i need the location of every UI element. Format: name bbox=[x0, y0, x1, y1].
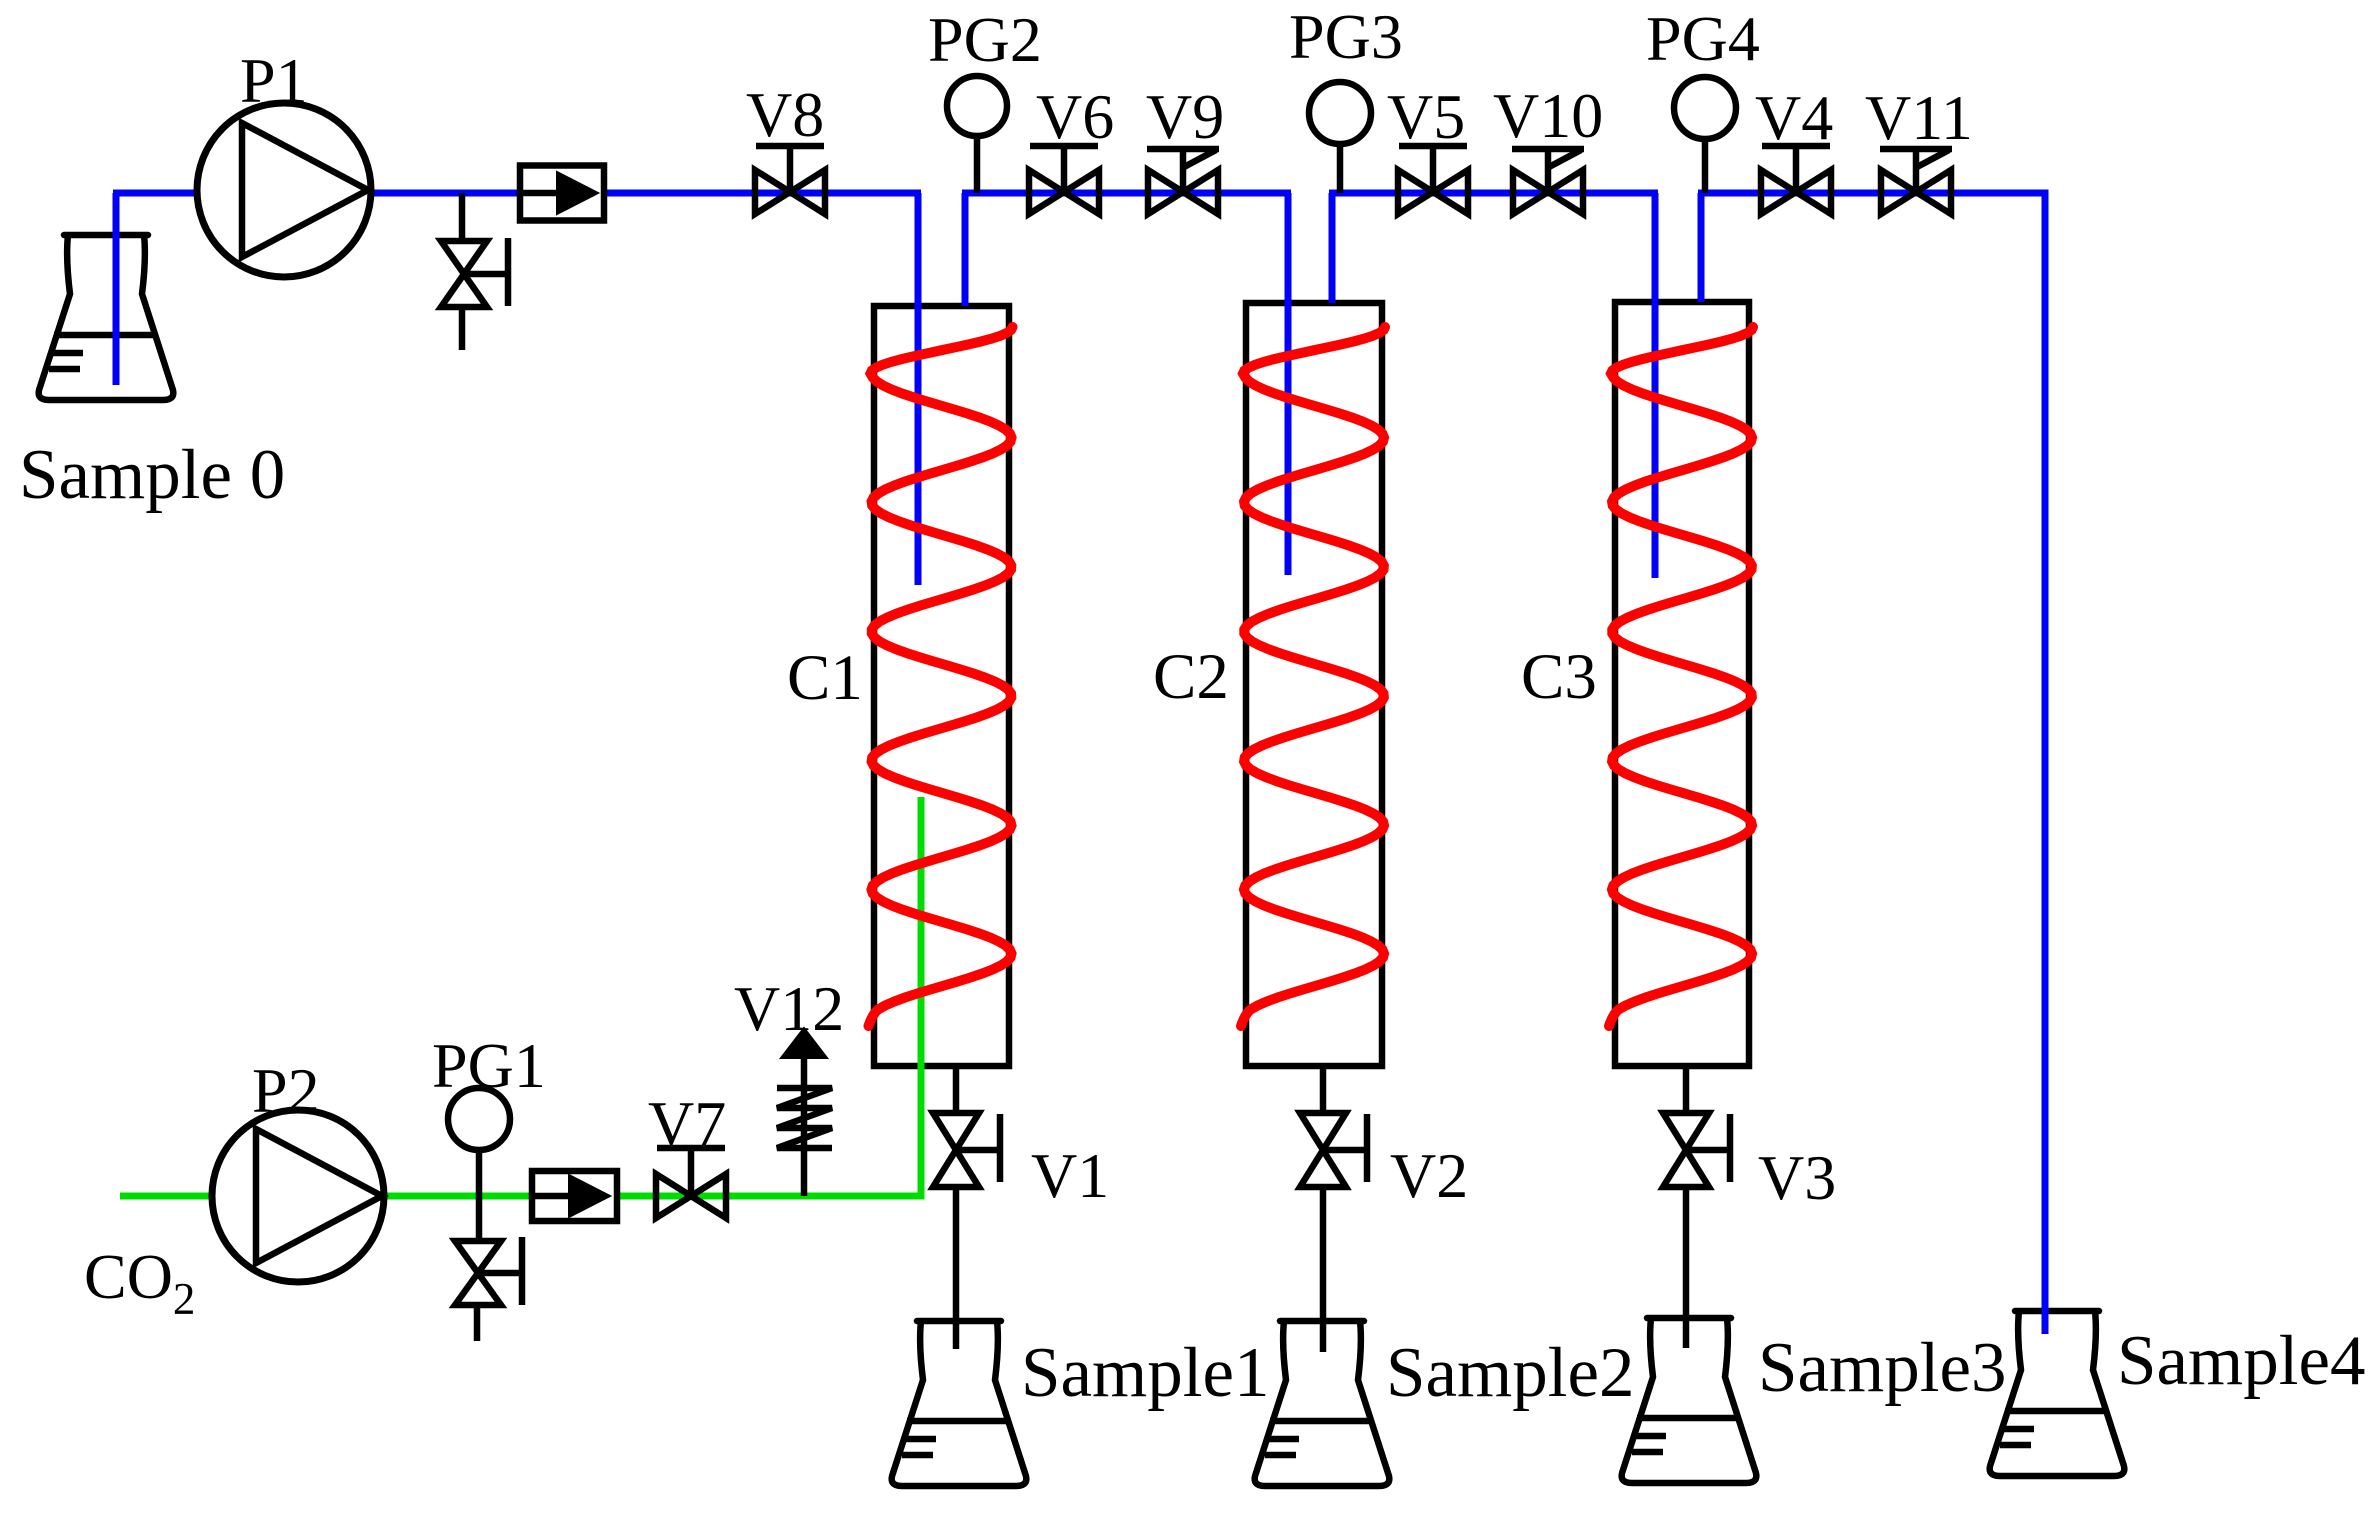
column C1 bbox=[874, 306, 1009, 1066]
svg-text:V9: V9 bbox=[1146, 81, 1224, 152]
svg-text:C3: C3 bbox=[1521, 641, 1597, 713]
flask Sample2 bbox=[1255, 1321, 1390, 1486]
relief valve V12 bbox=[801, 1058, 808, 1196]
svg-text:V8: V8 bbox=[746, 79, 824, 150]
heating coil in C1 bbox=[869, 327, 1013, 1026]
wire: CO2 feed to pump P2 bbox=[120, 1193, 213, 1200]
valve V9 bbox=[1148, 170, 1218, 214]
drain valve after P1 bbox=[459, 193, 466, 241]
heating coil in C3 bbox=[1609, 327, 1753, 1026]
flask Sample 0 bbox=[39, 235, 174, 400]
drain valve below PG1 bbox=[476, 1196, 483, 1241]
flask Sample4 bbox=[1990, 1311, 2125, 1476]
wire: C2 outlet to V2 bbox=[1320, 1066, 1327, 1116]
heating coil in C2 bbox=[1241, 327, 1385, 1026]
svg-text:V3: V3 bbox=[1758, 1142, 1836, 1213]
wire: C1 outlet riser bbox=[962, 193, 969, 306]
wire: C3 dip tube bbox=[1652, 193, 1659, 578]
valve V2 bbox=[1300, 1113, 1346, 1187]
svg-text:PG2: PG2 bbox=[928, 4, 1042, 75]
pressure gauge PG4 bbox=[1702, 139, 1709, 193]
wire: C2 dip tube bbox=[1285, 193, 1292, 575]
wire: P1 outlet to C1 dip corner bbox=[371, 190, 921, 197]
check valve after P2 bbox=[532, 1171, 617, 1221]
svg-text:V1: V1 bbox=[1031, 1140, 1109, 1211]
svg-text:Sample 0: Sample 0 bbox=[19, 436, 285, 514]
wire: C1 dip tube bbox=[915, 193, 922, 585]
wire: V1 to Sample1 bbox=[953, 1184, 960, 1349]
wire: V2 to Sample2 bbox=[1320, 1184, 1327, 1352]
svg-text:V2: V2 bbox=[1390, 1140, 1468, 1211]
svg-text:PG3: PG3 bbox=[1289, 1, 1403, 72]
svg-text:V12: V12 bbox=[734, 973, 844, 1044]
svg-text:Sample1: Sample1 bbox=[1021, 1334, 1269, 1412]
svg-text:V11: V11 bbox=[1865, 82, 1973, 153]
svg-text:P2: P2 bbox=[252, 1055, 320, 1126]
wire: P2 outlet to C1 riser corner bbox=[383, 1193, 925, 1200]
column C2 bbox=[1246, 303, 1382, 1066]
valve V10 bbox=[1513, 170, 1583, 214]
svg-text:Sample4: Sample4 bbox=[2117, 1322, 2365, 1400]
valve V11 bbox=[1881, 170, 1951, 214]
pump P1 bbox=[197, 103, 371, 277]
valve V6 bbox=[1029, 170, 1099, 214]
valve V5 bbox=[1398, 170, 1468, 214]
wire: C3 outlet to V3 bbox=[1683, 1066, 1690, 1116]
wire: C1 to C2 dip corner bbox=[962, 190, 1291, 197]
valve V3 bbox=[1663, 1113, 1709, 1187]
svg-text:CO2: CO2 bbox=[84, 1241, 195, 1324]
valve V4 bbox=[1761, 170, 1831, 214]
valve V7 bbox=[656, 1174, 726, 1218]
svg-text:V6: V6 bbox=[1036, 81, 1114, 152]
svg-text:C2: C2 bbox=[1153, 641, 1229, 713]
wire: green riser into C1 bbox=[918, 797, 925, 1196]
wire: C2 outlet riser bbox=[1329, 193, 1336, 303]
wire: C3 outlet to Sample4 corner bbox=[1698, 190, 2049, 197]
pressure gauge PG1 bbox=[476, 1150, 483, 1196]
svg-text:Sample2: Sample2 bbox=[1386, 1334, 1634, 1412]
svg-text:V7: V7 bbox=[648, 1088, 726, 1159]
valve V8 bbox=[755, 170, 825, 214]
valve V1 bbox=[933, 1113, 979, 1187]
wire: V3 to Sample3 bbox=[1683, 1184, 1690, 1348]
column C3 bbox=[1615, 302, 1749, 1066]
svg-text:PG4: PG4 bbox=[1646, 3, 1760, 74]
svg-text:P1: P1 bbox=[240, 45, 308, 116]
svg-text:V4: V4 bbox=[1755, 82, 1833, 153]
pressure gauge PG2 bbox=[974, 136, 981, 193]
pump P2 bbox=[212, 1110, 384, 1282]
flask Sample3 bbox=[1622, 1318, 1757, 1483]
svg-text:V5: V5 bbox=[1387, 81, 1465, 152]
flask Sample1 bbox=[892, 1321, 1027, 1486]
pressure gauge PG3 bbox=[1337, 144, 1344, 193]
wire: down to Sample4 bbox=[2042, 190, 2049, 1334]
svg-text:C1: C1 bbox=[787, 642, 863, 714]
wire: C1 outlet to V1 bbox=[953, 1066, 960, 1116]
wire: Sample0 to pump P1 bbox=[113, 190, 197, 197]
svg-text:V10: V10 bbox=[1493, 80, 1603, 151]
svg-text:PG1: PG1 bbox=[432, 1030, 546, 1101]
check valve after P1 bbox=[520, 166, 604, 221]
wire: C2 to C3 dip corner bbox=[1329, 190, 1658, 197]
svg-text:Sample3: Sample3 bbox=[1758, 1329, 2006, 1407]
wire: Sample0 dip tube bbox=[113, 193, 120, 385]
wire: C3 outlet riser bbox=[1698, 193, 1705, 302]
